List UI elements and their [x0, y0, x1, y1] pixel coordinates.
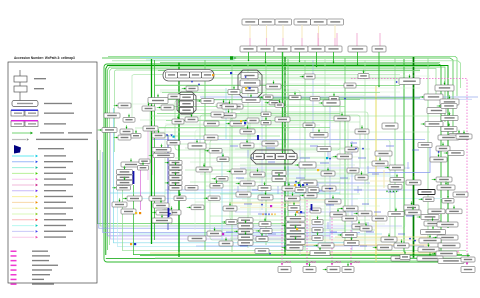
- svg-text:mRNA: mRNA: [284, 260, 292, 264]
- svg-text:Accession Number: WxPath 3: ce: Accession Number: WxPath 3: cellmap3: [14, 56, 75, 60]
- svg-text:mRNA: mRNA: [353, 260, 361, 264]
- svg-text:mRNA: mRNA: [334, 260, 342, 264]
